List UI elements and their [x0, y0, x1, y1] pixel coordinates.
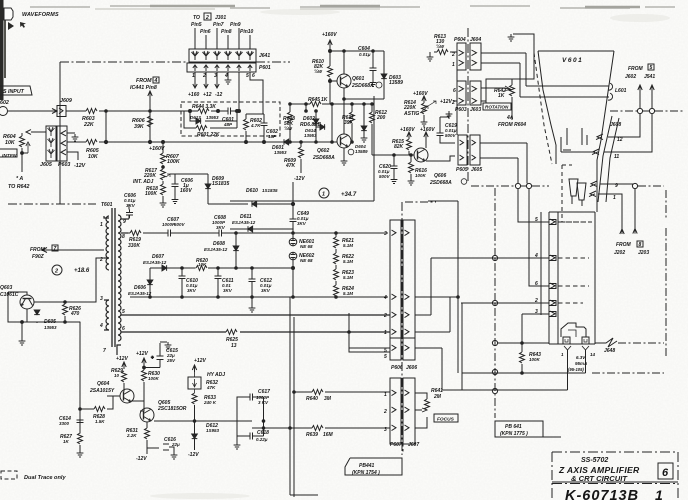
- diode D603: [381, 74, 387, 79]
- wire: Q605 emitter down to R631: [154, 420, 252, 422]
- svg-text:3KV: 3KV: [187, 288, 197, 293]
- wire: Q603 base/emitter: [8, 292, 27, 317]
- node ROTATION box: [483, 103, 511, 110]
- capacitor C611: [215, 273, 222, 282]
- diode D604 vertical with ground: [361, 126, 367, 131]
- capacitor C602: [261, 120, 268, 129]
- pin 2: [550, 300, 555, 306]
- svg-text:C1061C: C1061C: [0, 292, 19, 298]
- resistor R612 vertical: [370, 112, 375, 123]
- svg-text:-12V: -12V: [136, 456, 147, 462]
- svg-text:1.5K: 1.5K: [95, 419, 105, 424]
- connector J605 P603: [46, 126, 56, 161]
- svg-text:6: 6: [535, 281, 538, 287]
- svg-text:Q603: Q603: [0, 285, 12, 291]
- svg-text:L601: L601: [615, 88, 627, 94]
- wire: J603 pin2 to rotation frame: [481, 101, 486, 103]
- ground top stub: [21, 337, 23, 339]
- svg-text:10K: 10K: [5, 140, 16, 146]
- svg-text:ASTIG: ASTIG: [403, 111, 419, 117]
- CRT dashed shield: [534, 53, 552, 164]
- svg-text:-12V: -12V: [188, 452, 199, 458]
- svg-text:13953: 13953: [206, 115, 219, 120]
- wire: box left edge: [59, 62, 61, 204]
- svg-text:0.22μ: 0.22μ: [256, 437, 268, 442]
- wire: J605b pin wires to verticals: [480, 143, 527, 183]
- wire: pin4 ground stub: [227, 72, 229, 77]
- wire: chassis dash-dot through connectors: [467, 28, 469, 183]
- gun electrode trapezoid 1: [569, 179, 578, 196]
- svg-text:2: 2: [54, 269, 58, 275]
- wire: pin5 long drop to divider rail: [238, 72, 240, 111]
- wire: R608/D601 net from dashed box to Q602 base: [289, 141, 292, 144]
- svg-text:160V: 160V: [180, 188, 192, 194]
- svg-text:3: 3: [100, 296, 103, 302]
- pin 4 chevrons: [392, 294, 410, 300]
- svg-text:+160V: +160V: [322, 32, 337, 38]
- svg-text:ESJA35-12: ESJA35-12: [128, 291, 152, 296]
- wire: vertical bus x495: [494, 188, 496, 418]
- pin 3 chevrons: [392, 230, 410, 236]
- wire: R607 top from rail: [162, 142, 164, 153]
- wire: socket pin2 feed line: [462, 302, 549, 304]
- svg-text:J609: J609: [60, 98, 72, 104]
- svg-text:5.1M: 5.1M: [343, 259, 353, 264]
- svg-text:13953: 13953: [304, 133, 317, 138]
- resistor R627 vertical: [78, 433, 83, 444]
- wire: right exit pin2 to x431 riser: [415, 314, 431, 316]
- svg-text:+34.7: +34.7: [341, 192, 357, 198]
- small terminal tabs: [563, 337, 570, 344]
- wire: Q605 base from Q604: [140, 402, 144, 411]
- wire: tap 8: [121, 232, 128, 234]
- diode D610: [252, 201, 257, 207]
- svg-text:FROM R604: FROM R604: [498, 122, 526, 128]
- svg-text:Q602: Q602: [317, 148, 329, 154]
- svg-text:P606: P606: [391, 365, 403, 371]
- node test point 2: [52, 265, 62, 275]
- resistor R602 vertical: [244, 119, 249, 130]
- svg-text:TO: TO: [193, 15, 200, 21]
- wire: heater drops: [568, 350, 586, 390]
- wire: C619 bottom joins P605 feed: [440, 142, 455, 144]
- wire: R640 rail y392: [294, 391, 390, 393]
- wire: from circle down with up-arrow: [633, 189, 637, 234]
- svg-text:5: 5: [650, 65, 653, 71]
- wire pin1: [104, 216, 109, 218]
- svg-text:-12V: -12V: [74, 163, 86, 169]
- wire: bottom tap: [117, 345, 121, 355]
- power +160V at Q606 collector: [424, 132, 428, 148]
- resistor R640: [312, 390, 323, 395]
- wire: NE602 to rails: [292, 260, 294, 298]
- wire: pin2 down-left to Q603 collector: [34, 258, 104, 302]
- wire: box bottom: [230, 200, 374, 202]
- svg-text:25V: 25V: [166, 358, 176, 363]
- svg-text:R645: R645: [308, 97, 320, 103]
- node PB641 box: [495, 421, 561, 437]
- svg-text:6.3V: 6.3V: [576, 355, 586, 360]
- node FROM-5 ref box: [648, 64, 654, 70]
- wire: R643 top rail from bus circle: [498, 342, 549, 344]
- wire: vertical link to lower signal path: [105, 111, 107, 142]
- svg-text:1: 1: [452, 62, 455, 68]
- svg-text:P604: P604: [454, 37, 466, 43]
- svg-text:2: 2: [383, 313, 387, 319]
- wire: R639 rail y428: [252, 427, 390, 429]
- wire: emitter rail to D603 bottom: [344, 88, 384, 134]
- svg-text:+160V: +160V: [149, 146, 165, 152]
- svg-text:13589: 13589: [389, 80, 403, 86]
- resistor R639: [312, 426, 323, 431]
- svg-text:NE 68: NE 68: [300, 258, 313, 263]
- svg-text:1: 1: [613, 195, 616, 201]
- wire rail inside box: [190, 110, 226, 112]
- diode D612: [192, 434, 198, 439]
- svg-text:2SD668A: 2SD668A: [429, 180, 452, 186]
- wire: +12V into pin2: [453, 100, 457, 102]
- svg-text:J606: J606: [406, 365, 417, 371]
- svg-text:J648: J648: [604, 348, 615, 354]
- svg-text:47K: 47K: [206, 385, 216, 390]
- svg-text:95mA: 95mA: [575, 361, 587, 366]
- svg-text:½w: ½w: [284, 125, 293, 132]
- resistor R628: [94, 407, 105, 412]
- node circled C on Q601: [376, 82, 382, 88]
- wire: pin1 wire right then down with up-arrow: [612, 194, 624, 234]
- wire: J603 pin6 wiper feed to R642: [481, 88, 511, 90]
- pins inside P601 (arrows up): [193, 65, 252, 71]
- svg-text:Q606: Q606: [434, 173, 446, 179]
- svg-text:12: 12: [617, 137, 623, 143]
- svg-text:3KV: 3KV: [261, 288, 271, 293]
- resistor R618 vertical: [161, 184, 166, 195]
- pin 4: [550, 255, 555, 261]
- torn-edge glyph top: [4, 8, 13, 20]
- svg-text:2: 2: [205, 15, 209, 21]
- svg-text:Q604: Q604: [97, 381, 109, 387]
- svg-text:(KPN 1775 ): (KPN 1775 ): [500, 431, 528, 437]
- svg-text:22K: 22K: [83, 122, 95, 128]
- svg-text:5: 5: [535, 217, 538, 223]
- wire: down to C614 junction: [79, 322, 81, 422]
- capacitor C610: [179, 273, 186, 282]
- resistor R633 vertical: [192, 393, 197, 404]
- svg-text:2: 2: [451, 100, 455, 106]
- capacitor C616: [147, 444, 169, 450]
- wire: Q604 collector/emitter: [124, 390, 144, 401]
- node test point 1: [319, 188, 329, 198]
- wire: bottom rail y297 to connector pin4: [130, 296, 388, 298]
- wire: D610 rail: [208, 203, 294, 205]
- node dashed legend box: [1, 471, 17, 479]
- diode D605: [34, 310, 40, 315]
- wire: box top dash-dot: [60, 61, 186, 63]
- wire: left drop from D607 anode: [149, 268, 151, 280]
- wire: base feed from R610 column: [330, 80, 337, 82]
- svg-text:-12V: -12V: [294, 176, 305, 182]
- svg-text:+12V: +12V: [116, 356, 128, 362]
- connector J641: [189, 49, 256, 62]
- node FOCUS box: [434, 414, 458, 422]
- node FROM-4 ref box: [153, 77, 159, 83]
- wire: dash-dot y373 to right bus: [592, 372, 664, 374]
- pins inside J641 (bird feet): [192, 51, 254, 60]
- svg-text:5.1M: 5.1M: [343, 243, 353, 248]
- wire: arrow to FROM7: [42, 248, 104, 253]
- pin2 chevrons: [392, 407, 410, 413]
- svg-text:2SD668A: 2SD668A: [312, 155, 335, 161]
- wire: tap 6 with R625: [121, 331, 390, 333]
- diode D608 vertical: [233, 246, 239, 251]
- power -12V below D612: [194, 448, 196, 450]
- svg-text:D613: D613: [190, 115, 201, 120]
- svg-text:P605: P605: [456, 167, 468, 173]
- svg-text:3KV: 3KV: [223, 288, 233, 293]
- input jack J602: [0, 107, 8, 116]
- svg-text:(95-105): (95-105): [568, 367, 584, 372]
- svg-text:Pin6: Pin6: [200, 29, 211, 35]
- wire: J604 exits to rotation coil: [481, 53, 526, 63]
- svg-text:1K: 1K: [498, 93, 505, 99]
- resistor R601 (lower): [196, 126, 207, 131]
- svg-text:D610: D610: [246, 188, 258, 194]
- svg-text:1: 1: [384, 330, 387, 336]
- CRT funnel left edge: [538, 51, 556, 164]
- svg-text:R639: R639: [306, 432, 318, 438]
- wire: plate connection to pin11 line: [561, 137, 595, 152]
- ground: [160, 200, 167, 207]
- capacitor C617: [247, 394, 256, 401]
- svg-text:J605: J605: [471, 167, 482, 173]
- svg-text:10K: 10K: [88, 154, 99, 160]
- wire: dash-dot bus top right: [610, 110, 685, 112]
- svg-text:1: 1: [655, 487, 663, 500]
- neon NE602: [289, 252, 297, 260]
- svg-text:1: 1: [322, 192, 325, 198]
- svg-text:500V: 500V: [445, 133, 457, 138]
- diode D614: [320, 124, 325, 130]
- svg-text:1S1835: 1S1835: [262, 188, 278, 193]
- svg-text:18P: 18P: [268, 134, 277, 139]
- resistor R609 vertical: [299, 147, 304, 158]
- wire: x458 riser: [457, 201, 459, 373]
- svg-text:4: 4: [224, 73, 228, 79]
- svg-text:+160: +160: [188, 92, 199, 98]
- svg-text:Pin5: Pin5: [191, 22, 202, 28]
- node TO-2 ref box: [204, 13, 211, 20]
- svg-text:8: 8: [122, 234, 125, 240]
- svg-text:100K: 100K: [145, 191, 157, 197]
- svg-text:ESJA35-12: ESJA35-12: [143, 260, 167, 265]
- wire: R610 column: [329, 51, 331, 104]
- svg-text:1K: 1K: [321, 97, 328, 103]
- coil L601: [608, 83, 613, 100]
- svg-text:INT. ADJ: INT. ADJ: [133, 179, 153, 185]
- wire top rail: [170, 173, 208, 175]
- diode D602 zener: [313, 119, 319, 124]
- socket pin column: [557, 212, 559, 344]
- wire: Q602 emitter to ground: [343, 148, 345, 158]
- wire: rotation coil feed upper: [526, 53, 609, 86]
- svg-text:+18.6: +18.6: [74, 268, 90, 274]
- node INTEN box: [0, 149, 17, 157]
- capacitor C618: [247, 433, 256, 440]
- svg-text:NE 68: NE 68: [300, 244, 313, 249]
- wire: R609 drop from base line: [300, 142, 302, 147]
- svg-text:1K: 1K: [63, 439, 70, 444]
- pin 9 chevrons: [590, 181, 613, 187]
- wire: P605 feeds from J603 above: [456, 105, 458, 135]
- resistor chain R621 R622 R623 R624: [335, 233, 337, 237]
- svg-text:7: 7: [54, 246, 57, 252]
- connector J609: [57, 106, 66, 117]
- wire: pin5 entry from above-left: [349, 313, 390, 352]
- CRT funnel right edge: [597, 51, 614, 212]
- pin1 chevrons: [392, 390, 410, 396]
- svg-text:F90Z: F90Z: [32, 254, 45, 260]
- capacitor C607: [165, 230, 174, 237]
- connector P601: [187, 63, 256, 72]
- connector J-right column: [403, 220, 415, 360]
- svg-text:1: 1: [100, 222, 103, 228]
- resistor R617 pot vertical: [161, 169, 166, 180]
- resistor R630 vertical: [142, 370, 147, 381]
- svg-text:5.1M: 5.1M: [343, 275, 353, 280]
- wire pot wiper R617: [166, 174, 170, 177]
- wire: chassis dash-dot through connector columns: [401, 202, 403, 455]
- svg-text:100K: 100K: [529, 357, 541, 362]
- gun electrode trapezoid 2: [577, 183, 586, 200]
- capacitor C620 shunt: [391, 163, 398, 172]
- svg-text:6: 6: [662, 467, 669, 479]
- resistor R608 vertical: [288, 112, 293, 123]
- svg-text:V601: V601: [562, 57, 583, 64]
- svg-text:J301: J301: [215, 15, 226, 21]
- connector P604/J604: [457, 43, 466, 70]
- wire: rotation coil feed lower: [520, 63, 609, 97]
- wire: R601 loop: [184, 111, 237, 128]
- svg-text:(KPN 1754 ): (KPN 1754 ): [352, 470, 380, 476]
- node divider junction: [305, 110, 308, 113]
- power +12V at R630: [142, 358, 146, 370]
- power +160V: [422, 96, 426, 103]
- wire: pin9 to circle then dash-dot right and down: [613, 183, 633, 185]
- svg-text:+12V: +12V: [440, 99, 452, 105]
- wire: input line to J609: [8, 109, 57, 114]
- svg-text:2SC1815OR: 2SC1815OR: [157, 406, 187, 412]
- resistor R603: [86, 109, 97, 114]
- wire: top rail to C604 and D603: [330, 50, 384, 52]
- wire: right exit pin5 to x439 drop: [415, 348, 442, 390]
- svg-text:J541: J541: [644, 74, 655, 80]
- primary winding lower (left): [106, 300, 109, 330]
- wire: pot R641 loop right: [415, 393, 427, 428]
- wire: D613 loop: [190, 111, 237, 128]
- connector P-left column: [390, 220, 401, 360]
- connector P603/J603: [457, 81, 466, 105]
- connector P606/J606: [390, 338, 401, 360]
- wire: pin1 gnd stub: [67, 132, 75, 134]
- svg-text:5: 5: [384, 354, 387, 360]
- pin 1 chevrons: [589, 191, 612, 197]
- resistor R607 vertical: [161, 153, 166, 164]
- svg-text:200: 200: [376, 115, 386, 121]
- pot R614: [422, 103, 427, 114]
- svg-text:100K: 100K: [148, 376, 160, 381]
- svg-text:R640: R640: [306, 396, 318, 402]
- svg-text:* A: * A: [16, 176, 23, 182]
- wire: dash-dot after J648: [618, 342, 664, 344]
- transistor Q606: [414, 148, 428, 162]
- svg-text:IC441 Pin8: IC441 Pin8: [130, 85, 157, 91]
- capacitor C606hv top: [128, 215, 130, 219]
- pin 12 chevrons: [596, 134, 616, 140]
- wire: tap 5: [121, 314, 390, 316]
- connector P605/J605 lower: [458, 135, 467, 165]
- svg-text:K-60713B: K-60713B: [565, 488, 639, 500]
- svg-text:Q601: Q601: [352, 76, 364, 82]
- node junction: [105, 110, 108, 113]
- svg-text:39K: 39K: [344, 120, 354, 126]
- svg-text:½w: ½w: [436, 43, 445, 50]
- svg-text:J604: J604: [470, 37, 481, 43]
- svg-text:47K: 47K: [285, 163, 296, 169]
- CRT faceplate top: [538, 50, 614, 52]
- pin 3: [550, 311, 555, 317]
- wire: x431 riser to socket pin4 line: [430, 258, 432, 315]
- svg-text:-12: -12: [215, 92, 222, 98]
- svg-text:+160V: +160V: [400, 127, 415, 133]
- wire: socket pin2 feed riser x462: [461, 303, 463, 390]
- wire: R642 top loop right to ground: [512, 34, 534, 79]
- svg-text:13953: 13953: [274, 150, 287, 155]
- pin 1 chevrons: [392, 329, 410, 335]
- svg-text:0.01μ: 0.01μ: [359, 52, 371, 57]
- transistor Q602: [337, 134, 351, 148]
- svg-text:FROM: FROM: [616, 242, 632, 248]
- wire: R605 to Q602 base rail: [99, 141, 337, 143]
- ground above C619: [446, 111, 453, 118]
- svg-text:10K: 10K: [198, 262, 207, 267]
- capacitor C601 series: [225, 108, 234, 115]
- wire: vertical from tap7 line down to D607 rail: [135, 214, 137, 216]
- svg-text:ESJA35-12: ESJA35-12: [232, 220, 256, 225]
- wire pin2: [104, 257, 109, 259]
- wire: arrows up from labels: [638, 85, 642, 108]
- capacitor C604: [370, 65, 377, 74]
- capacitor C649: [290, 216, 297, 225]
- transistor Q605: [140, 408, 154, 422]
- scan streaks top edge: [30, 6, 675, 9]
- svg-text:& CRT CIRCUIT: & CRT CIRCUIT: [571, 474, 628, 483]
- wiper R641 from pin2: [415, 408, 427, 412]
- wire: pin leads above J641: [195, 28, 250, 49]
- potentiometer R642: [510, 85, 515, 96]
- wire: -12V label stub: [146, 448, 148, 454]
- resistor R645 horizontal: [306, 103, 332, 105]
- wire: gun stubs: [572, 196, 582, 206]
- svg-text:J602: J602: [625, 74, 636, 80]
- wire: twin verticals from transformer rails down: [290, 297, 294, 497]
- resistor R611 vertical: [350, 112, 355, 123]
- wire: box right edge: [373, 96, 375, 201]
- resistor R615 vertical: [407, 139, 412, 150]
- svg-text:5: 5: [122, 309, 125, 315]
- wire: pin4 to R605: [67, 141, 86, 143]
- wire: heater rails to left: [442, 373, 586, 390]
- diode D609: [205, 184, 211, 189]
